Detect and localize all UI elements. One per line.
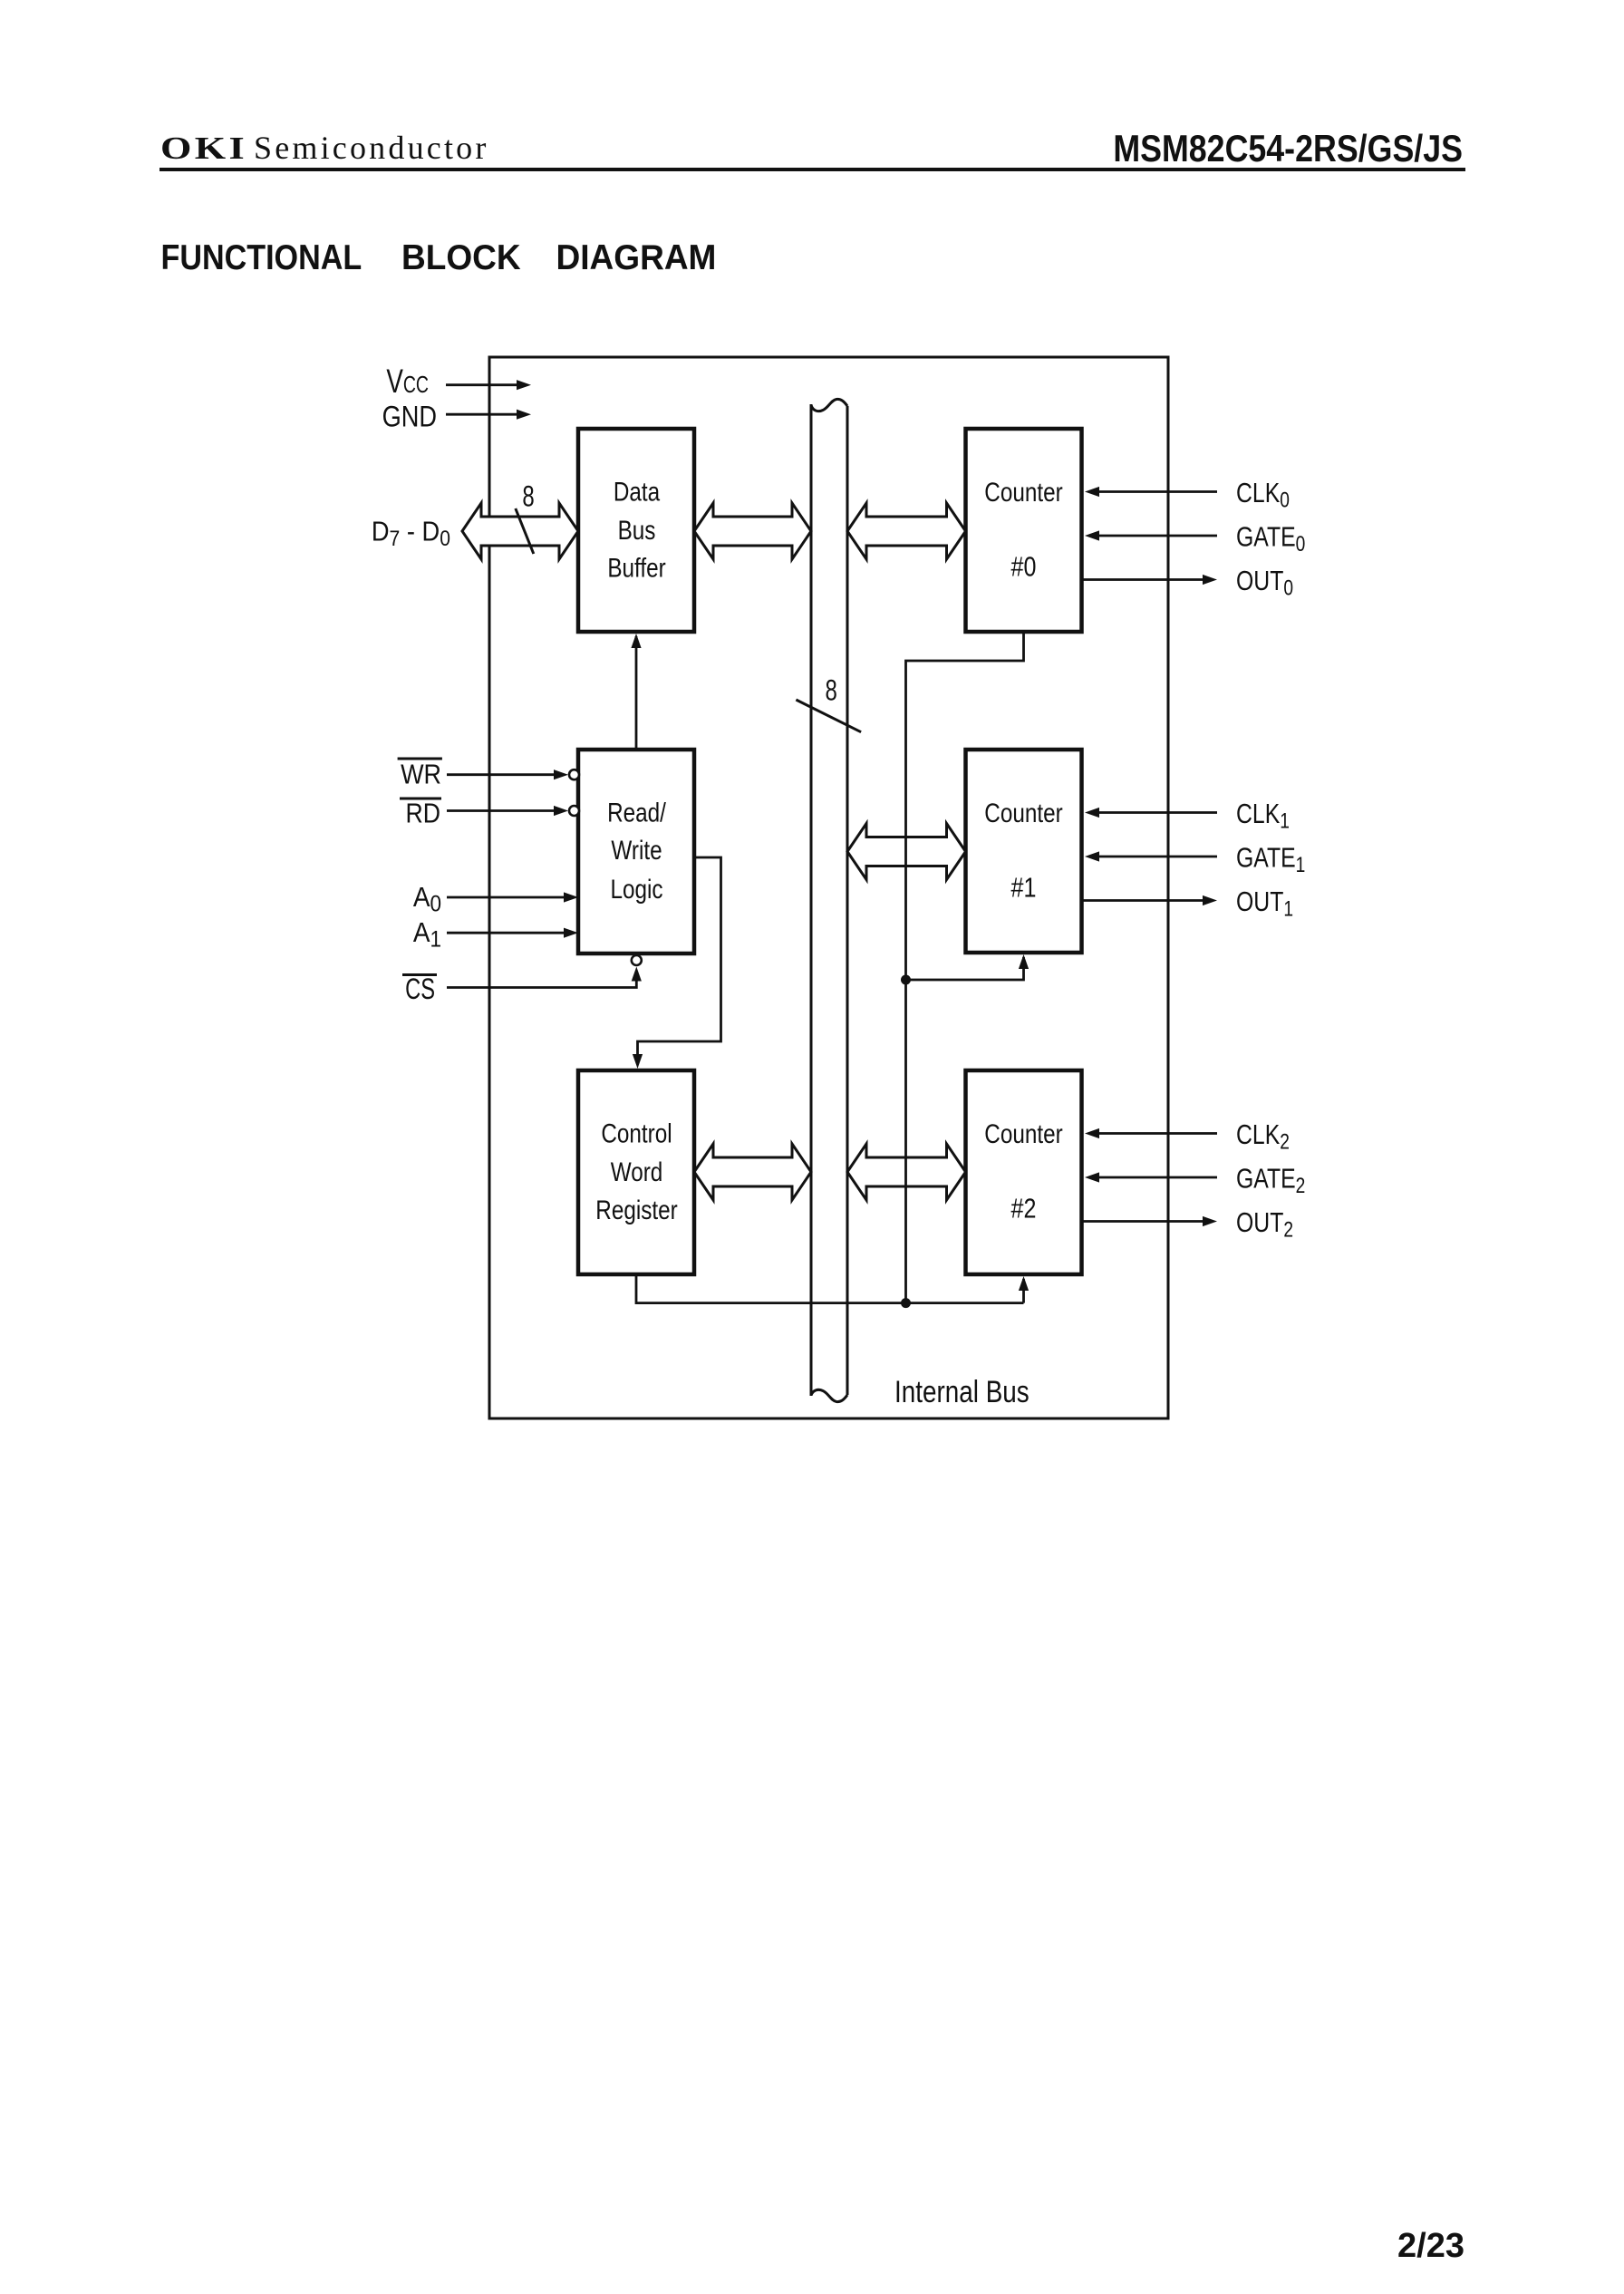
- svg-text:CLK2: CLK2: [1236, 1118, 1290, 1154]
- svg-text:OUT2: OUT2: [1236, 1206, 1293, 1242]
- svg-text:GATE0: GATE0: [1236, 521, 1305, 557]
- junction node A: [901, 975, 911, 985]
- wire Read/Write Logic to Data Bus Buffer: [631, 634, 641, 750]
- pin OUT0: [1082, 565, 1294, 600]
- svg-text:A1: A1: [413, 917, 441, 953]
- svg-text:Register: Register: [595, 1195, 677, 1225]
- bus arrow Data Bus Buffer to internal bus: [694, 503, 811, 559]
- svg-text:8: 8: [522, 479, 534, 512]
- svg-text:8: 8: [826, 673, 837, 706]
- bus arrow internal bus to Counter #1: [847, 824, 966, 880]
- svg-text:Write: Write: [611, 835, 662, 866]
- svg-text:Counter: Counter: [984, 477, 1062, 508]
- pin GATE0: [1085, 521, 1305, 557]
- pin OUT2: [1082, 1206, 1294, 1242]
- bus arrow internal bus to Counter #2: [847, 1144, 966, 1200]
- pin OUT1: [1082, 886, 1294, 921]
- svg-text:VCC: VCC: [386, 362, 429, 400]
- svg-text:CLK1: CLK1: [1236, 798, 1290, 833]
- svg-text:RD: RD: [405, 798, 440, 828]
- bus width slash 8 on D7-D0 arrow: [516, 479, 535, 554]
- svg-text:Semiconductor: Semiconductor: [254, 130, 489, 166]
- svg-text:BLOCK: BLOCK: [401, 238, 521, 277]
- block Read/Write Logic: [578, 750, 694, 953]
- svg-text:Logic: Logic: [610, 873, 662, 904]
- svg-text:CLK0: CLK0: [1236, 477, 1290, 512]
- block Control Word Register: [578, 1070, 694, 1274]
- svg-text:A0: A0: [413, 881, 441, 916]
- svg-text:Word: Word: [611, 1156, 663, 1186]
- wire Control Word Register bottom: [636, 1274, 1024, 1303]
- svg-text:OUT0: OUT0: [1236, 565, 1293, 600]
- block Counter #2: [966, 1070, 1082, 1274]
- pin RD: [400, 798, 579, 828]
- block Data Bus Buffer: [578, 429, 694, 632]
- svg-text:GATE1: GATE1: [1236, 842, 1305, 877]
- svg-text:FUNCTIONAL: FUNCTIONAL: [161, 237, 362, 277]
- bus arrow Control Word Register to internal bus: [694, 1144, 811, 1200]
- svg-text:Counter: Counter: [984, 798, 1062, 828]
- bus arrow D7-D0 to Data Bus Buffer: [462, 503, 578, 559]
- block Counter #1: [966, 750, 1082, 953]
- bus arrow internal bus to Counter #0: [847, 503, 966, 559]
- wire Read/Write Logic to Control Word Register: [633, 857, 721, 1069]
- bus width slash 8 on internal bus: [796, 673, 861, 731]
- pin VCC: [386, 362, 531, 400]
- svg-text:Data: Data: [614, 476, 661, 507]
- svg-text:Counter: Counter: [984, 1118, 1062, 1149]
- svg-text:#2: #2: [1011, 1192, 1037, 1224]
- svg-text:Control: Control: [601, 1118, 672, 1148]
- wire branch to Counter #1: [906, 954, 1029, 980]
- internal bus pipe: [811, 399, 847, 1401]
- svg-text:MSM82C54-2RS/GS/JS: MSM82C54-2RS/GS/JS: [1113, 128, 1463, 169]
- svg-text:Buffer: Buffer: [607, 552, 665, 583]
- pin GND: [382, 401, 531, 433]
- svg-text:Read/: Read/: [607, 797, 666, 828]
- pin A1: [413, 917, 578, 953]
- title FUNCTIONAL BLOCK DIAGRAM: [161, 237, 717, 277]
- pin GATE1: [1085, 842, 1305, 877]
- svg-text:DIAGRAM: DIAGRAM: [556, 238, 717, 277]
- header rule: [159, 168, 1465, 171]
- svg-text:GND: GND: [382, 401, 437, 433]
- pin GATE2: [1085, 1163, 1305, 1198]
- chip outline box: [489, 357, 1168, 1418]
- svg-text:#0: #0: [1011, 550, 1037, 582]
- pin CS: [402, 955, 642, 1005]
- svg-text:#1: #1: [1011, 871, 1037, 903]
- svg-text:OUT1: OUT1: [1236, 886, 1293, 921]
- block Counter #0: [966, 429, 1082, 632]
- pin A0: [413, 881, 578, 916]
- junction node B: [901, 1298, 911, 1308]
- pin CLK2: [1085, 1118, 1290, 1154]
- svg-text:OKI: OKI: [160, 130, 247, 166]
- svg-text:GATE2: GATE2: [1236, 1163, 1305, 1198]
- wire branch to Counter #2: [1019, 1276, 1029, 1303]
- svg-text:2/23: 2/23: [1397, 2227, 1464, 2265]
- svg-text:WR: WR: [401, 760, 441, 790]
- pin WR: [398, 759, 579, 790]
- svg-text:CS: CS: [405, 973, 435, 1005]
- svg-text:Internal Bus: Internal Bus: [894, 1374, 1029, 1408]
- pin CLK0: [1085, 477, 1290, 512]
- wire Counter #0 bottom to internal bus wire: [906, 633, 1024, 1303]
- pin CLK1: [1085, 798, 1290, 833]
- svg-text:D7 - D0: D7 - D0: [372, 517, 450, 550]
- svg-text:Bus: Bus: [618, 514, 656, 545]
